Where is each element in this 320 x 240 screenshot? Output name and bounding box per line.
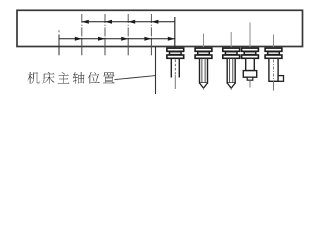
spindle position vertical line: [155, 47, 157, 94]
tool T1 holder flange (top): [167, 48, 184, 51]
right arrowhead 5 (bottom row): [168, 37, 175, 41]
dash-dot centerline 1 (upper dashed part): [81, 14, 83, 36]
tool T5 holder flange (bottom): [265, 55, 282, 58]
tool T2 drill body: [200, 58, 208, 83]
tool T4 holder flange (bottom): [242, 55, 259, 58]
tool T1 solid centerline (dimension end): [174, 17, 176, 48]
tool T2 holder flange (top): [195, 48, 212, 51]
dash-dot centerline 4 (upper dashed part): [150, 14, 152, 36]
start centerline at first position, crossing rect bottom: [58, 34, 60, 55]
left arrowhead 3 (top row): [128, 20, 135, 24]
tool T1 dashed centerline: [174, 60, 176, 75]
tool T2 hanger line: [203, 34, 205, 49]
dash-dot centerline 3 (upper dashed part): [127, 14, 129, 36]
tool T1 shank left side: [170, 58, 172, 77]
tool T5 hanger line: [273, 35, 275, 49]
tool T4 shank: [246, 58, 255, 70]
tool T1 shank right side: [178, 58, 180, 77]
tool T2 drill flute lines: [201, 58, 203, 84]
start centerline dot (above): [58, 30, 60, 32]
centerline 3 lower solid part crossing rect bottom: [127, 38, 129, 56]
label text 机床主轴位置 (traced glyph outlines): [28, 72, 115, 84]
tool T1 holder flange (bottom): [167, 55, 184, 58]
bottom dimension line (right arrows row): [59, 38, 175, 40]
centerline 2 lower solid part crossing rect bottom: [104, 38, 106, 56]
tool T5 side step block: [278, 76, 283, 82]
tool T5 body: [269, 58, 278, 81]
tool T5 holder flange (top): [265, 48, 282, 51]
tool T3 drill point: [227, 83, 235, 88]
tool T4 pilot line: [249, 80, 251, 87]
right arrowhead 1 (bottom row): [75, 37, 82, 41]
right arrowhead 3 (bottom row): [121, 37, 128, 41]
centerline 1 lower solid part crossing rect bottom: [81, 38, 83, 56]
tool T2 drill point: [200, 83, 208, 88]
tool T2 holder collar: [198, 52, 210, 55]
left arrowhead 1 (top row): [82, 20, 89, 24]
right arrowhead 4 (bottom row): [144, 37, 151, 41]
tool T3 holder flange (top): [223, 48, 240, 51]
top dimension line (left arrows row): [82, 21, 175, 23]
tool T4 nub below foot: [247, 77, 253, 80]
dash-dot centerline 2 (upper dashed part): [104, 14, 106, 36]
tool T1 holder collar: [170, 52, 182, 55]
tool T4 cutter foot block: [243, 71, 256, 78]
tool T3 holder collar: [225, 52, 237, 55]
tool T3 holder flange (bottom): [223, 55, 240, 58]
tool T3 drill body: [227, 58, 235, 83]
left arrowhead 4 (top row): [151, 20, 158, 24]
tool T3 hanger line: [230, 32, 232, 49]
centerline 4 lower solid part crossing rect bottom: [150, 38, 152, 56]
tool T4 holder flange (top): [242, 48, 259, 51]
right arrowhead 2 (bottom row): [98, 37, 105, 41]
tool T3 drill flute lines: [229, 58, 231, 84]
tool T5 holder collar: [268, 52, 280, 55]
machine ram / headstock outline: [17, 10, 303, 46]
leader line from label to spindle line: [115, 76, 156, 80]
left arrowhead 2 (top row): [105, 20, 112, 24]
tool T2 holder flange (bottom): [195, 55, 212, 58]
tool T4 holder collar: [244, 52, 256, 55]
tool T4 hanger line: [249, 23, 251, 49]
tool T5 pilot line: [273, 81, 275, 90]
tool T5 dash-dot centerline: [273, 60, 275, 81]
tool T1 pilot tip line: [174, 75, 176, 90]
